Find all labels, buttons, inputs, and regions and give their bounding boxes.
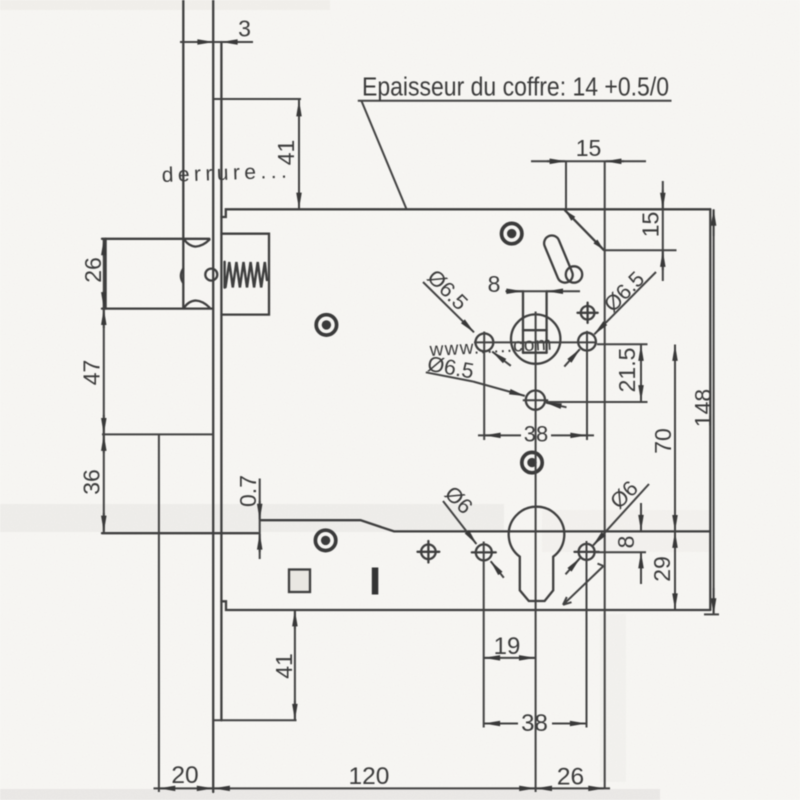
long ext vertical through case — [604, 161, 606, 789]
dim 19 line — [484, 657, 536, 659]
centerline through upper holes — [474, 341, 597, 343]
screw center — [522, 452, 542, 472]
svg-text:47: 47 — [79, 360, 105, 386]
dim 15 top line — [531, 160, 646, 162]
svg-text:Epaisseur du coffre: 14 +0.5/0: Epaisseur du coffre: 14 +0.5/0 — [362, 74, 669, 102]
ext line 15 top left — [565, 161, 567, 208]
wire faceplate back vertical line — [220, 42, 222, 720]
hole D6.5 left circle — [476, 334, 494, 352]
cover plate edge left of faceplate — [102, 532, 258, 534]
ext line 8 right bottom — [594, 551, 646, 553]
bottom chain dim line 20 120 26 — [154, 787, 611, 789]
svg-text:0.7: 0.7 — [235, 475, 261, 507]
dim 0.7 vertical — [259, 479, 261, 560]
leader D6.5 center — [426, 372, 473, 381]
svg-text:8: 8 — [488, 271, 501, 297]
leader to bottom edge — [563, 564, 604, 605]
lock case bottom edge — [221, 601, 710, 610]
small square window — [289, 570, 310, 593]
euro cylinder hole tail — [509, 507, 565, 601]
dim 70 and 29 vertical — [674, 345, 676, 610]
leader D6.5 upper right — [594, 272, 656, 334]
svg-text:26: 26 — [557, 764, 584, 791]
svg-text:20: 20 — [171, 762, 198, 789]
chamfer diagonal at top right of inner plate — [565, 210, 604, 250]
follower square bottom — [523, 352, 547, 354]
svg-text:36: 36 — [79, 469, 105, 495]
lock case right edge — [709, 209, 711, 610]
dim 41 top vertical — [298, 100, 300, 209]
svg-text:21.5: 21.5 — [614, 348, 640, 393]
ext verticals below holes D6 — [483, 542, 485, 728]
screws — [315, 223, 542, 550]
latch retaining notch on door line — [181, 269, 183, 284]
svg-text:26: 26 — [80, 257, 106, 283]
chamfer arrows — [566, 211, 575, 220]
note leader line — [362, 101, 407, 209]
svg-text:120: 120 — [349, 763, 390, 790]
dim 15 right vertical — [662, 181, 664, 281]
svg-text:15: 15 — [638, 212, 664, 238]
center vertical line — [535, 312, 537, 793]
svg-text:38: 38 — [521, 710, 548, 737]
hole center crosshair horizontal — [523, 399, 548, 401]
dim 41 bottom vertical — [294, 610, 296, 720]
ext vertical left bottom — [158, 434, 160, 792]
svg-text:19: 19 — [494, 633, 521, 660]
lock case top edge — [221, 209, 710, 217]
ext line chamfer bottom — [604, 249, 677, 251]
hole small cross top — [581, 306, 595, 320]
svg-text:29: 29 — [649, 556, 675, 582]
dim 38 middle line — [478, 434, 521, 436]
dim 8 top line — [506, 290, 581, 292]
ext line 41 top — [214, 98, 302, 100]
follower circle — [511, 314, 560, 363]
svg-text:8: 8 — [613, 536, 639, 549]
latch bolt front face — [104, 239, 106, 309]
latch guide box inside case — [222, 234, 270, 315]
leader D6 right — [593, 484, 649, 545]
svg-text:3: 3 — [238, 16, 251, 42]
screw upper middle — [316, 315, 336, 335]
hole right crosshair vertical / ext to 38 dim — [586, 331, 588, 440]
latch bolt bottom edge — [102, 307, 213, 309]
hole D6 right circle — [579, 544, 595, 560]
pin head circle — [566, 266, 582, 282]
leader D6 left — [443, 501, 476, 544]
spring coil — [225, 262, 267, 288]
ext line 21.5 bottom — [546, 401, 648, 403]
dim 148 vertical — [713, 209, 715, 615]
dim 38 bottom line — [484, 723, 519, 725]
hole D6.5 center circle — [526, 391, 545, 410]
dim 3 line — [180, 41, 253, 43]
hole D6 left circle — [476, 544, 492, 560]
svg-text:148: 148 — [690, 389, 716, 427]
follower square sides — [522, 291, 524, 352]
svg-text:41: 41 — [273, 140, 299, 166]
dim chain left vertical 26 47 36 — [103, 239, 105, 532]
cover plate stepped edge 0.7 — [261, 520, 710, 531]
dim 8 right vertical — [640, 503, 642, 531]
dim 21.5 vertical — [640, 345, 642, 402]
latch bevel top curve — [184, 239, 210, 247]
wire long vertical line left (door edge) — [182, 0, 184, 309]
hole D6.5 right circle — [578, 333, 596, 351]
wire faceplate front vertical line — [212, 0, 214, 792]
pin lever capsule — [542, 233, 575, 285]
svg-text:41: 41 — [271, 653, 297, 679]
ext line 47/36 boundary — [102, 433, 213, 435]
hole small cross bottom left — [421, 545, 436, 560]
screw lower left — [315, 530, 335, 550]
ext line 41 bottom — [214, 719, 297, 721]
spring end loop — [205, 269, 217, 281]
latch bolt top edge — [102, 238, 209, 240]
small dark slot — [372, 568, 379, 595]
leader D6.5 upper left — [423, 282, 474, 332]
follower square top — [523, 329, 547, 331]
svg-text:38: 38 — [524, 422, 548, 447]
svg-text:70: 70 — [650, 428, 676, 454]
latch bevel bottom curve — [184, 301, 210, 309]
screw top right — [502, 223, 522, 243]
svg-text:15: 15 — [576, 135, 602, 161]
hole left crosshair vertical / ext to 38 dim — [483, 332, 485, 441]
note underline — [358, 100, 672, 102]
